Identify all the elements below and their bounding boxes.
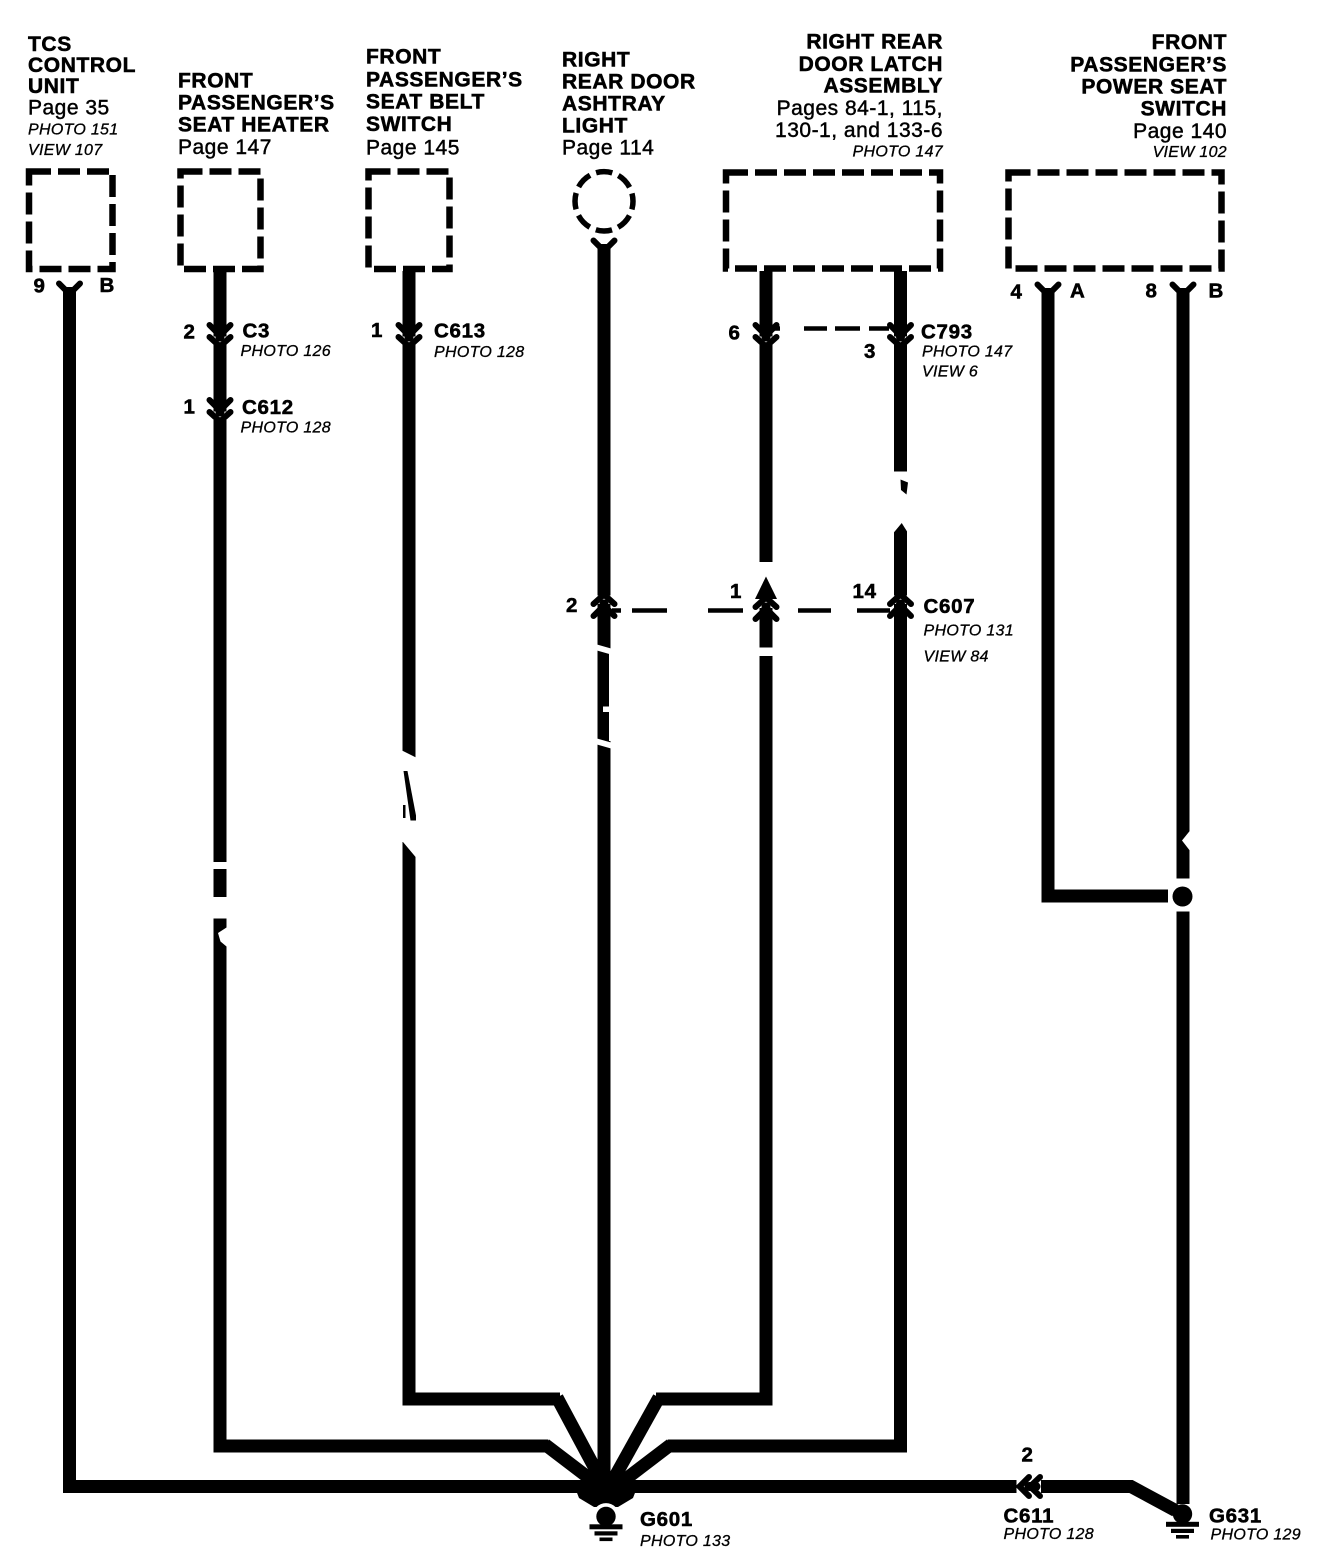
- svg-text:Page 114: Page 114: [562, 137, 654, 160]
- svg-text:PHOTO 128: PHOTO 128: [241, 420, 331, 437]
- svg-text:TCS: TCS: [28, 33, 72, 56]
- svg-text:VIEW 102: VIEW 102: [1153, 144, 1227, 161]
- svg-text:ASHTRAY: ASHTRAY: [562, 93, 666, 116]
- svg-text:C612: C612: [242, 396, 294, 419]
- svg-text:VIEW 84: VIEW 84: [924, 649, 989, 666]
- svg-text:SEAT BELT: SEAT BELT: [366, 91, 485, 114]
- svg-text:2: 2: [184, 321, 196, 344]
- svg-text:2: 2: [1022, 1444, 1034, 1467]
- svg-text:VIEW 107: VIEW 107: [28, 142, 103, 159]
- svg-text:PHOTO 128: PHOTO 128: [1004, 1526, 1094, 1543]
- svg-text:SEAT HEATER: SEAT HEATER: [178, 114, 330, 137]
- svg-text:C607: C607: [924, 595, 976, 618]
- svg-text:FRONT: FRONT: [1152, 31, 1227, 54]
- svg-text:130-1, and 133-6: 130-1, and 133-6: [775, 119, 943, 142]
- svg-text:Page 145: Page 145: [366, 137, 460, 160]
- svg-text:PHOTO 129: PHOTO 129: [1211, 1527, 1301, 1544]
- svg-text:FRONT: FRONT: [178, 70, 253, 93]
- svg-text:C793: C793: [921, 321, 973, 344]
- svg-text:1: 1: [371, 319, 383, 342]
- svg-text:8: 8: [1146, 280, 1158, 303]
- svg-text:Page 140: Page 140: [1133, 120, 1227, 143]
- svg-text:UNIT: UNIT: [28, 75, 79, 98]
- svg-text:ASSEMBLY: ASSEMBLY: [823, 75, 943, 98]
- svg-text:DOOR LATCH: DOOR LATCH: [799, 53, 943, 76]
- svg-text:RIGHT: RIGHT: [562, 49, 630, 72]
- svg-text:4: 4: [1011, 281, 1023, 304]
- svg-text:PHOTO 131: PHOTO 131: [924, 623, 1014, 640]
- svg-text:B: B: [1209, 280, 1225, 303]
- svg-text:C3: C3: [243, 320, 271, 343]
- svg-text:14: 14: [853, 580, 877, 603]
- svg-text:VIEW 6: VIEW 6: [922, 364, 978, 381]
- svg-text:2: 2: [566, 594, 578, 617]
- svg-text:Page 35: Page 35: [28, 97, 110, 120]
- svg-text:REAR DOOR: REAR DOOR: [562, 71, 696, 94]
- svg-text:Pages 84-1, 115,: Pages 84-1, 115,: [777, 97, 943, 120]
- svg-text:PHOTO 151: PHOTO 151: [28, 122, 118, 139]
- svg-text:RIGHT REAR: RIGHT REAR: [806, 31, 943, 54]
- svg-text:C611: C611: [1004, 1505, 1055, 1528]
- svg-text:PASSENGER’S: PASSENGER’S: [1070, 54, 1227, 77]
- svg-text:PHOTO 147: PHOTO 147: [853, 144, 944, 161]
- svg-text:PASSENGER’S: PASSENGER’S: [178, 92, 335, 115]
- svg-text:PHOTO 147: PHOTO 147: [922, 344, 1013, 361]
- svg-text:Page 147: Page 147: [178, 136, 272, 159]
- svg-text:C613: C613: [434, 320, 486, 343]
- svg-text:1: 1: [184, 396, 196, 419]
- svg-text:9: 9: [34, 275, 46, 298]
- svg-text:POWER SEAT: POWER SEAT: [1081, 76, 1227, 99]
- svg-text:PHOTO 126: PHOTO 126: [241, 343, 331, 360]
- svg-text:G631: G631: [1209, 1505, 1262, 1528]
- svg-text:B: B: [100, 274, 116, 297]
- svg-text:A: A: [1070, 280, 1086, 303]
- svg-text:LIGHT: LIGHT: [562, 115, 628, 138]
- svg-text:6: 6: [729, 322, 741, 345]
- svg-text:CONTROL: CONTROL: [28, 54, 136, 77]
- svg-text:PASSENGER’S: PASSENGER’S: [366, 69, 523, 92]
- svg-text:PHOTO 133: PHOTO 133: [640, 1533, 730, 1550]
- svg-text:SWITCH: SWITCH: [1141, 98, 1227, 121]
- svg-text:3: 3: [864, 340, 876, 363]
- svg-text:1: 1: [730, 580, 742, 603]
- svg-text:G601: G601: [640, 1508, 693, 1531]
- svg-text:SWITCH: SWITCH: [366, 113, 452, 136]
- svg-text:FRONT: FRONT: [366, 46, 441, 69]
- svg-text:PHOTO 128: PHOTO 128: [434, 344, 524, 361]
